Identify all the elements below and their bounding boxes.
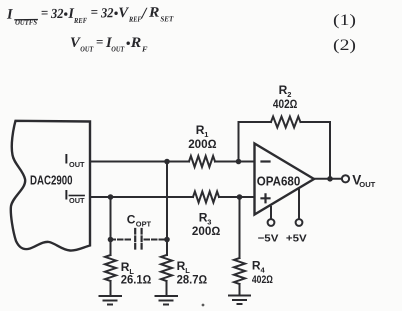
label R3 (192, 211, 220, 239)
svg-text:OUT: OUT (80, 44, 93, 53)
label RL1 (121, 260, 152, 287)
wire: R4 to ground (239, 284, 241, 296)
wire: IOUTbar rail from DAC to R3 (90, 196, 193, 198)
svg-text:REF: REF (128, 15, 141, 24)
pin label IOUT (65, 152, 85, 169)
svg-text:OPT: OPT (136, 220, 152, 229)
svg-text:=: = (91, 4, 99, 19)
wire: R3 to noninverting input (219, 196, 255, 198)
wire: feedback top left segment (239, 121, 272, 123)
wire: vertical B from IOUT rail to RL2 (166, 162, 168, 256)
svg-text:32: 32 (50, 6, 64, 21)
supply pin -5V (270, 207, 272, 219)
op-amp minus sign (262, 160, 270, 162)
svg-text:I: I (6, 7, 14, 23)
resistor R3 (193, 192, 219, 203)
op-amp U1 OPA680 triangle (255, 144, 315, 215)
node: output junction (327, 176, 333, 182)
ground under RL2 (156, 296, 178, 305)
label COPT (127, 213, 152, 229)
label R2 (273, 83, 298, 111)
wire: feedback top right segment (301, 121, 331, 123)
svg-text:+5V: +5V (286, 232, 307, 244)
ground under R4 (229, 296, 250, 305)
label VOUT (352, 172, 375, 189)
svg-text:=: = (96, 34, 103, 49)
node: noninverting input junction (237, 194, 243, 200)
scan speck (202, 304, 205, 307)
svg-text:OUT: OUT (359, 180, 375, 189)
svg-text:C: C (127, 213, 136, 227)
svg-text:/: / (141, 4, 148, 23)
label R1 (188, 123, 216, 151)
wire: vertical A from IOUTbar rail to RL1 (110, 197, 112, 255)
svg-text:(2): (2) (333, 37, 356, 54)
svg-text:200Ω: 200Ω (192, 224, 220, 238)
svg-text:OUT: OUT (69, 196, 85, 205)
resistor RL1 26.1 (105, 255, 116, 281)
node: capacitor left tap (108, 237, 114, 243)
svg-text:200Ω: 200Ω (188, 137, 216, 151)
svg-text:OUT: OUT (111, 44, 124, 53)
pin label IOUT-bar (65, 188, 85, 205)
equation 1: IOUTFS = 32*IREF = 32*VREF/RSET (6, 3, 174, 27)
svg-text:26.1Ω: 26.1Ω (121, 272, 152, 286)
svg-text:I: I (65, 188, 69, 203)
svg-text:OPA680: OPA680 (257, 174, 301, 188)
equation 2: VOUT = IOUT*RF (70, 34, 148, 54)
junction node bottom rail / vertical A (108, 194, 114, 200)
terminal VOUT open circle (342, 175, 349, 182)
svg-text:32: 32 (100, 5, 114, 20)
wire: feedback left vertical (238, 122, 240, 162)
op-amp plus sign (262, 194, 270, 202)
svg-text:=: = (41, 5, 49, 20)
junction node top rail / vertical B (164, 159, 170, 165)
supply pin +5V (298, 190, 300, 220)
ground under RL1 (100, 296, 122, 305)
resistor R2 (271, 117, 300, 128)
wire: feedback right vertical (329, 122, 331, 179)
wire: RL1 to ground (110, 281, 112, 296)
svg-text:−5V: −5V (258, 232, 279, 244)
wire: noninverting node down to R4 (239, 197, 241, 258)
label R4 (252, 259, 273, 286)
node: capacitor right tap (164, 237, 170, 243)
resistor R1 (189, 156, 215, 167)
svg-text:R: R (130, 35, 142, 51)
svg-text:402Ω: 402Ω (252, 274, 273, 286)
capacitor COPT dashed (111, 229, 168, 250)
DAC2900 block torn outline (11, 121, 90, 251)
resistor R4 (234, 258, 245, 284)
svg-text:402Ω: 402Ω (273, 97, 298, 111)
svg-text:V: V (118, 5, 129, 21)
label RL2 (177, 259, 208, 287)
op-amp output wire (314, 178, 342, 180)
node: inverting input feedback tap (236, 159, 242, 165)
wire: IOUT rail from DAC to R1 (90, 161, 189, 163)
svg-text:SET: SET (160, 14, 173, 23)
svg-text:REF: REF (73, 16, 87, 25)
wire: RL2 to ground (166, 281, 168, 296)
wire: R1 to inverting input (215, 161, 255, 163)
svg-text:F: F (142, 44, 148, 53)
svg-text:28.7Ω: 28.7Ω (177, 272, 208, 286)
resistor RL2 28.7 (161, 255, 172, 281)
svg-text:OUT: OUT (69, 160, 85, 169)
svg-text:(1): (1) (333, 12, 356, 29)
svg-text:I: I (65, 152, 69, 167)
svg-text:R: R (148, 5, 160, 21)
svg-text:DAC2900: DAC2900 (30, 172, 73, 187)
